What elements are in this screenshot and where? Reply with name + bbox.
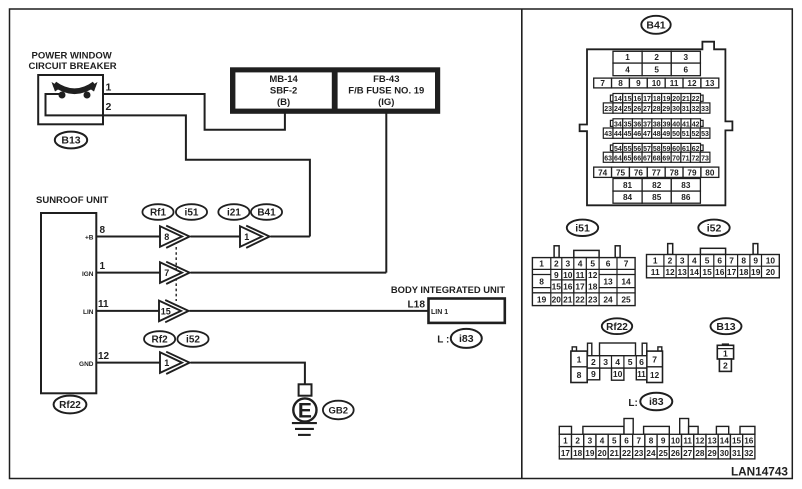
svg-text:7: 7 [600,79,605,88]
svg-text:81: 81 [623,181,633,190]
svg-text:8: 8 [100,225,106,236]
connector i51 housing tabs [554,246,620,258]
ground symbol hatch lines [292,423,317,435]
svg-text:11: 11 [670,79,679,88]
svg-text:i51: i51 [575,222,590,234]
connector i52 pin grid [647,255,780,278]
connector B13 pin grid [717,343,733,371]
in-line connector triangle pin 15 (Rf1/i51) [159,300,189,322]
connector view oval B41 [641,16,670,34]
svg-text:23: 23 [604,106,612,113]
connector view oval i83 [640,393,672,411]
svg-text:27: 27 [643,106,651,113]
label L : [437,335,449,346]
svg-text:1: 1 [577,355,582,365]
connector i52 housing tabs [668,244,758,255]
svg-text:31: 31 [682,106,690,113]
svg-text:GB2: GB2 [329,406,349,417]
svg-text:70: 70 [672,155,680,162]
svg-text:15: 15 [732,436,742,445]
wire breaker pin2 to +B node [103,115,310,236]
svg-text:7: 7 [164,268,169,278]
svg-text:12: 12 [695,436,705,445]
wire IGN row to fuse drop [191,272,387,274]
svg-text:14: 14 [621,276,631,286]
svg-text:68: 68 [653,155,661,162]
sunroof unit box [41,213,96,393]
svg-text:i83: i83 [459,333,474,345]
wire +B row after i21/B41 connector [271,236,310,238]
svg-text:6: 6 [717,255,722,265]
svg-text:1: 1 [244,232,249,242]
svg-text:17: 17 [561,449,571,458]
svg-text:23: 23 [588,295,598,305]
svg-text:1: 1 [653,255,658,265]
svg-text:5: 5 [628,357,633,367]
svg-text:9: 9 [753,255,758,265]
svg-text:6: 6 [684,65,689,74]
svg-text:Rf2: Rf2 [152,335,169,346]
svg-text:13: 13 [677,267,687,277]
svg-text:15: 15 [702,267,712,277]
svg-text:52: 52 [691,131,699,138]
svg-text:2: 2 [591,357,596,367]
dotted connector grouping line [175,247,177,301]
svg-text:13: 13 [708,436,718,445]
svg-text:8: 8 [618,79,623,88]
circuit breaker pin 2 label [106,101,112,113]
label BODY INTEGRATED UNIT [391,284,506,295]
fuse box block frame [230,67,440,114]
in-line connector triangle pin 8 (Rf1/i51) [160,226,190,248]
svg-text:77: 77 [652,168,662,177]
svg-text:19: 19 [537,295,547,305]
svg-text:5: 5 [705,255,710,265]
connector i83 housing tabs [559,419,755,435]
svg-text:20: 20 [672,96,680,103]
svg-text:86: 86 [681,193,691,202]
svg-text:48: 48 [653,131,661,138]
svg-text:9: 9 [554,270,559,280]
svg-text:22: 22 [692,96,700,103]
svg-text:B41: B41 [257,208,276,219]
svg-text:9: 9 [591,369,596,379]
svg-text:24: 24 [646,449,656,458]
svg-text:12: 12 [665,267,675,277]
svg-text:L18: L18 [407,300,425,311]
svg-text:SUNROOF UNIT: SUNROOF UNIT [36,195,109,206]
svg-text:3: 3 [603,357,608,367]
connector oval i51 (schematic) [176,204,207,220]
svg-text:SBF-2: SBF-2 [270,86,297,97]
svg-text:1: 1 [100,261,106,272]
svg-text:44: 44 [614,131,622,138]
svg-text:25: 25 [621,295,631,305]
svg-text:8: 8 [741,255,746,265]
svg-text:4: 4 [578,259,583,269]
svg-text:18: 18 [653,96,661,103]
svg-text:25: 25 [659,449,669,458]
svg-text:2: 2 [723,361,728,371]
svg-text:8: 8 [649,436,654,445]
wire GND row to ground [191,363,305,385]
svg-text:25: 25 [624,106,632,113]
wire LIN row to body integrated unit [190,310,429,312]
svg-text:51: 51 [682,131,690,138]
label POWER WINDOW CIRCUIT BREAKER [29,50,117,72]
circuit breaker internal wire to pin 2 [46,94,104,115]
sunroof pin 12 GND stub wire [96,362,160,364]
svg-text:82: 82 [652,181,662,190]
sunroof pin 12 label [79,351,110,368]
svg-text:26: 26 [671,449,681,458]
svg-text:3: 3 [684,53,689,62]
svg-text:45: 45 [624,131,632,138]
svg-text:LIN 1: LIN 1 [431,309,448,316]
svg-text:3: 3 [680,255,685,265]
svg-text:10: 10 [671,436,681,445]
svg-text:i51: i51 [185,208,199,219]
svg-text:2: 2 [654,53,659,62]
svg-text:Rf1: Rf1 [150,208,167,219]
svg-text:64: 64 [614,155,622,162]
svg-text:71: 71 [682,155,690,162]
body integrated unit box [429,299,505,323]
vertical divider between schematic and connector views [521,9,523,479]
svg-text:4: 4 [692,255,697,265]
svg-text:9: 9 [636,79,641,88]
svg-text:20: 20 [552,295,562,305]
svg-text:42: 42 [692,121,700,128]
svg-text:E: E [298,400,312,423]
svg-text:35: 35 [624,121,632,128]
svg-text:22: 22 [575,295,585,305]
svg-text:53: 53 [701,131,709,138]
svg-text:i52: i52 [186,335,200,346]
svg-text:17: 17 [727,267,737,277]
svg-text:21: 21 [682,96,690,103]
connector view oval i52 [698,220,729,236]
svg-text:L:: L: [628,398,637,409]
svg-text:14: 14 [720,436,730,445]
connector view oval B13 [711,318,742,334]
sunroof pin 11 label [83,299,109,316]
svg-text:Rf22: Rf22 [606,322,628,333]
svg-text:85: 85 [652,193,662,202]
svg-text:84: 84 [623,193,633,202]
svg-text:1: 1 [625,53,630,62]
svg-text:18: 18 [573,449,583,458]
svg-text:8: 8 [539,276,544,286]
svg-text:27: 27 [683,449,693,458]
svg-text:23: 23 [634,449,644,458]
svg-text:L :: L : [437,335,449,346]
sunroof pin 1 IGN stub wire [96,272,160,274]
svg-text:10: 10 [563,270,573,280]
svg-text:73: 73 [701,155,709,162]
svg-text:CIRCUIT BREAKER: CIRCUIT BREAKER [29,61,117,72]
svg-text:17: 17 [643,96,651,103]
svg-text:15: 15 [161,307,171,317]
svg-text:4: 4 [615,357,620,367]
svg-text:3: 3 [588,436,593,445]
svg-text:32: 32 [744,449,754,458]
svg-text:11: 11 [576,270,585,280]
connector oval i52 (schematic) [177,331,208,347]
svg-text:7: 7 [636,436,641,445]
svg-text:20: 20 [598,449,608,458]
svg-text:31: 31 [732,449,742,458]
svg-text:12: 12 [650,371,660,380]
connector i83 pin grid [559,434,755,459]
svg-text:2: 2 [106,101,112,113]
svg-text:65: 65 [624,155,632,162]
svg-text:12: 12 [588,270,598,280]
ground circle E GB2 [293,398,316,422]
svg-text:i83: i83 [649,396,664,408]
svg-text:(IG): (IG) [378,97,394,108]
svg-text:11: 11 [98,299,109,310]
svg-text:1: 1 [723,349,728,359]
diagram number LAN14743 [731,465,788,479]
svg-text:74: 74 [598,168,608,177]
connector oval Rf1 [142,204,173,220]
svg-text:14: 14 [614,96,622,103]
svg-text:1: 1 [164,358,169,368]
connector view oval Rf22 [602,318,632,334]
svg-text:6: 6 [624,436,629,445]
svg-text:49: 49 [662,131,670,138]
svg-text:F/B FUSE NO. 19: F/B FUSE NO. 19 [348,86,424,97]
circuit breaker pin 1 label [106,82,112,94]
svg-text:16: 16 [715,267,725,277]
connector i51 pin grid [532,258,635,306]
svg-text:4: 4 [600,436,605,445]
svg-text:13: 13 [705,79,715,88]
svg-text:6: 6 [606,259,611,269]
svg-text:15: 15 [552,282,562,292]
connector oval i21 [218,204,249,220]
sunroof pin 11 LIN stub wire [96,310,159,312]
svg-text:1: 1 [106,82,112,94]
svg-text:1: 1 [563,436,568,445]
svg-text:10: 10 [652,79,662,88]
svg-text:50: 50 [672,131,680,138]
in-line connector triangle pin 7 (Rf1/i51) [160,262,190,284]
connector Rf22 pin grid [571,343,663,383]
svg-text:20: 20 [766,267,776,277]
svg-text:72: 72 [691,155,699,162]
svg-text:19: 19 [585,449,595,458]
svg-text:40: 40 [672,121,680,128]
label SUNROOF UNIT [36,195,109,206]
connector oval GB2 [323,401,354,420]
svg-text:26: 26 [633,106,641,113]
svg-text:7: 7 [652,355,657,365]
svg-text:69: 69 [662,155,670,162]
svg-text:32: 32 [691,106,699,113]
svg-text:6: 6 [639,357,644,367]
svg-text:33: 33 [701,106,709,113]
svg-text:79: 79 [687,168,697,177]
svg-text:5: 5 [612,436,617,445]
svg-text:16: 16 [744,436,754,445]
svg-text:11: 11 [651,267,660,277]
svg-text:19: 19 [663,96,671,103]
svg-text:5: 5 [654,65,659,74]
label L: for i83 [628,398,637,409]
svg-text:3: 3 [565,259,570,269]
svg-text:67: 67 [643,155,651,162]
svg-text:i21: i21 [227,208,241,219]
svg-text:75: 75 [616,168,626,177]
svg-text:MB-14: MB-14 [269,74,298,85]
fuse MB-14 SBF-2 (B) labels [269,74,298,108]
svg-text:24: 24 [614,106,622,113]
svg-text:21: 21 [563,295,573,305]
fuse FB-43 F/B FUSE NO. 19 (IG) labels [348,74,424,108]
connector B41 pin grid [594,51,719,203]
svg-text:2: 2 [668,255,673,265]
sunroof pin 8 +B stub wire [96,236,160,238]
connector view oval i51 [567,220,598,236]
svg-text:4: 4 [625,65,630,74]
svg-text:12: 12 [687,79,697,88]
svg-text:14: 14 [690,267,700,277]
svg-text:5: 5 [590,259,595,269]
connector B41 housing outline [580,42,733,206]
svg-text:B13: B13 [716,321,735,333]
svg-text:8: 8 [164,232,169,242]
in-line connector triangle pin 1 (i21/B41) [240,226,270,248]
svg-text:83: 83 [681,181,691,190]
svg-text:39: 39 [663,121,671,128]
in-line connector triangle pin 1 (Rf2/i52) [160,352,190,374]
connector oval Rf22 under sunroof unit [54,396,87,414]
connector oval B41 (schematic) [251,204,282,220]
svg-text:19: 19 [751,267,761,277]
svg-text:41: 41 [682,121,690,128]
svg-text:GND: GND [79,361,94,368]
svg-text:10: 10 [613,369,623,379]
svg-text:21: 21 [610,449,620,458]
svg-text:1: 1 [539,259,544,269]
svg-text:43: 43 [604,131,612,138]
svg-text:16: 16 [633,96,641,103]
svg-text:11: 11 [683,436,692,445]
wire FB-43 to IGN line [385,112,387,273]
body integrated unit LIN 1 label [431,309,448,316]
svg-text:63: 63 [604,155,612,162]
svg-text:11: 11 [637,370,646,379]
svg-text:28: 28 [695,449,705,458]
svg-text:29: 29 [708,449,718,458]
wire +B row after connector [191,236,241,238]
svg-text:i52: i52 [707,222,722,234]
svg-text:Rf22: Rf22 [59,400,81,411]
svg-text:80: 80 [705,168,715,177]
svg-text:9: 9 [661,436,666,445]
svg-text:(B): (B) [277,97,290,108]
svg-text:13: 13 [603,276,613,286]
svg-text:B41: B41 [646,19,665,31]
ground terminal square [299,384,312,395]
circuit breaker box B13 [38,75,103,124]
svg-text:15: 15 [624,96,632,103]
svg-text:29: 29 [662,106,670,113]
svg-text:30: 30 [672,106,680,113]
svg-text:IGN: IGN [82,271,94,278]
svg-text:76: 76 [634,168,644,177]
sunroof pin 1 label [82,261,106,278]
svg-text:2: 2 [575,436,580,445]
wire breaker pin1 to MB-14 [103,94,285,130]
body integrated unit pin L18 label [407,300,425,311]
svg-text:16: 16 [563,282,573,292]
svg-text:FB-43: FB-43 [373,74,399,85]
sunroof pin 8 label [85,225,106,242]
connector oval i83 (schematic) [451,329,482,348]
svg-text:17: 17 [575,282,585,292]
svg-text:46: 46 [633,131,641,138]
svg-text:7: 7 [624,259,629,269]
svg-text:7: 7 [729,255,734,265]
svg-text:24: 24 [603,295,613,305]
svg-text:28: 28 [653,106,661,113]
svg-text:BODY INTEGRATED UNIT: BODY INTEGRATED UNIT [391,284,506,295]
svg-text:18: 18 [739,267,749,277]
svg-text:34: 34 [614,121,622,128]
svg-text:POWER WINDOW: POWER WINDOW [32,50,112,61]
svg-text:B13: B13 [61,135,80,147]
circuit breaker bimetal element [52,82,98,99]
svg-text:36: 36 [633,121,641,128]
svg-text:30: 30 [720,449,730,458]
svg-text:38: 38 [653,121,661,128]
svg-text:10: 10 [766,255,776,265]
svg-text:LIN: LIN [83,309,94,316]
svg-text:47: 47 [643,131,651,138]
svg-text:2: 2 [554,259,559,269]
svg-text:18: 18 [588,282,598,292]
connector oval B13 under breaker [55,132,87,149]
svg-text:78: 78 [670,168,680,177]
svg-text:8: 8 [577,370,582,380]
svg-text:LAN14743: LAN14743 [731,465,788,479]
svg-text:22: 22 [622,449,632,458]
svg-text:12: 12 [98,351,110,362]
svg-text:66: 66 [633,155,641,162]
svg-text:+B: +B [85,235,94,242]
connector oval Rf2 [144,331,175,347]
svg-text:37: 37 [643,121,651,128]
